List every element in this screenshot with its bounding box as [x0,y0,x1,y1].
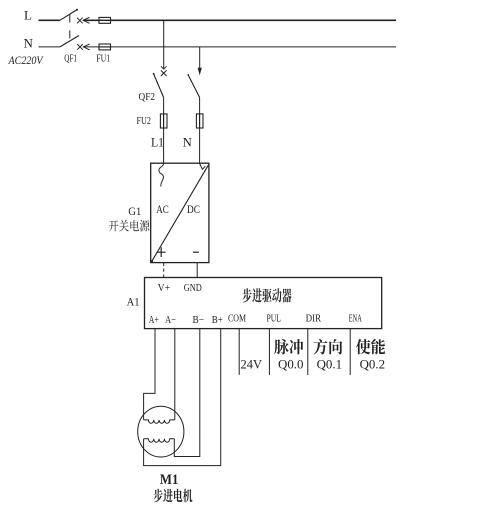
motor M1 body circle [138,406,184,457]
svg-text:A+: A+ [149,314,159,326]
svg-text:L: L [24,7,32,22]
breaker QF2 blade left [153,73,163,97]
fuse FU1 (N) [99,44,111,50]
svg-text:FU1: FU1 [96,54,110,65]
svg-text:V+: V+ [158,282,171,294]
svg-text:AC: AC [156,202,169,216]
wire V+ (dashed) [163,263,165,278]
svg-text:COM: COM [228,312,246,324]
wire A- to motor [174,329,176,420]
breaker QF2 blade right [188,75,200,98]
wire branch from L rail [163,20,165,69]
motor phase A coil [144,420,175,423]
svg-text:B+: B+ [212,314,223,326]
svg-text:B−: B− [193,314,205,326]
label 步进驱动器 (stepper driver) [243,288,292,302]
label 方向 (direction) [314,339,343,355]
svg-text:Q0.1: Q0.1 [317,356,343,371]
AC/DC diagonal [151,165,208,262]
wire B- to motor [174,329,200,457]
minus terminal [193,251,199,253]
wire L rail with arrowhead [83,19,396,21]
stepper driver A1 box [145,278,382,329]
svg-text:QF1: QF1 [64,54,77,65]
svg-text:A1: A1 [127,294,140,308]
svg-text:ENA: ENA [349,312,362,324]
label 使能 (enable) [356,339,385,355]
wire PUL stub [268,329,270,375]
wire DIR stub [307,329,309,375]
wire N rail left segment [39,46,60,48]
power supply G1 box [151,163,209,262]
wire GND [196,263,198,278]
svg-text:Q0.2: Q0.2 [360,356,386,371]
svg-text:M1: M1 [160,472,179,488]
squiggle at N input [200,164,206,170]
svg-text:DC: DC [187,202,200,216]
svg-text:GND: GND [184,282,202,294]
squiggle at L1 input [159,164,164,187]
svg-text:A−: A− [165,314,176,326]
svg-text:PUL: PUL [267,312,282,324]
svg-text:FU2: FU2 [137,116,152,127]
fuse FU1 (L) [99,17,111,23]
contact cross below arrow [161,70,167,76]
wire ENA stub [349,329,351,375]
fuse FU2 left [160,114,167,128]
wire L rail left segment [39,19,60,21]
label 开关电源 (switching power supply) [109,220,150,232]
wire QF2-left to fuse to G1 [163,97,165,163]
wire A+ to motor [144,329,155,420]
breaker QF1 pole N blade [60,36,79,47]
svg-text:24V: 24V [241,357,263,372]
wire COM stub [238,329,240,375]
svg-text:Q0.0: Q0.0 [278,356,304,371]
svg-text:N: N [183,135,192,149]
svg-text:L1: L1 [151,135,164,149]
svg-text:DIR: DIR [306,312,322,324]
wire QF2-right to fuse to G1 [199,97,201,163]
plus terminal [157,247,166,257]
fuse FU2 right [196,114,203,128]
svg-text:QF2: QF2 [139,92,156,103]
wire B+ to motor [144,329,221,466]
svg-text:G1: G1 [128,204,141,218]
breaker QF1 linkage tick N [69,30,71,38]
label 步进电机 (stepper motor) [154,489,193,503]
svg-text:N: N [24,36,34,51]
svg-text:AC220V: AC220V [8,55,45,67]
motor phase B coil [144,439,175,442]
wire branch from N rail [199,47,201,70]
wire N rail with arrowhead [83,46,396,48]
breaker QF1 contact cross L [77,18,83,24]
breaker QF1 contact cross N [77,44,83,50]
label 脉冲 (pulse) [274,339,303,354]
breaker QF1 linkage tick L [69,14,71,22]
breaker QF1 pole L blade [60,10,77,20]
